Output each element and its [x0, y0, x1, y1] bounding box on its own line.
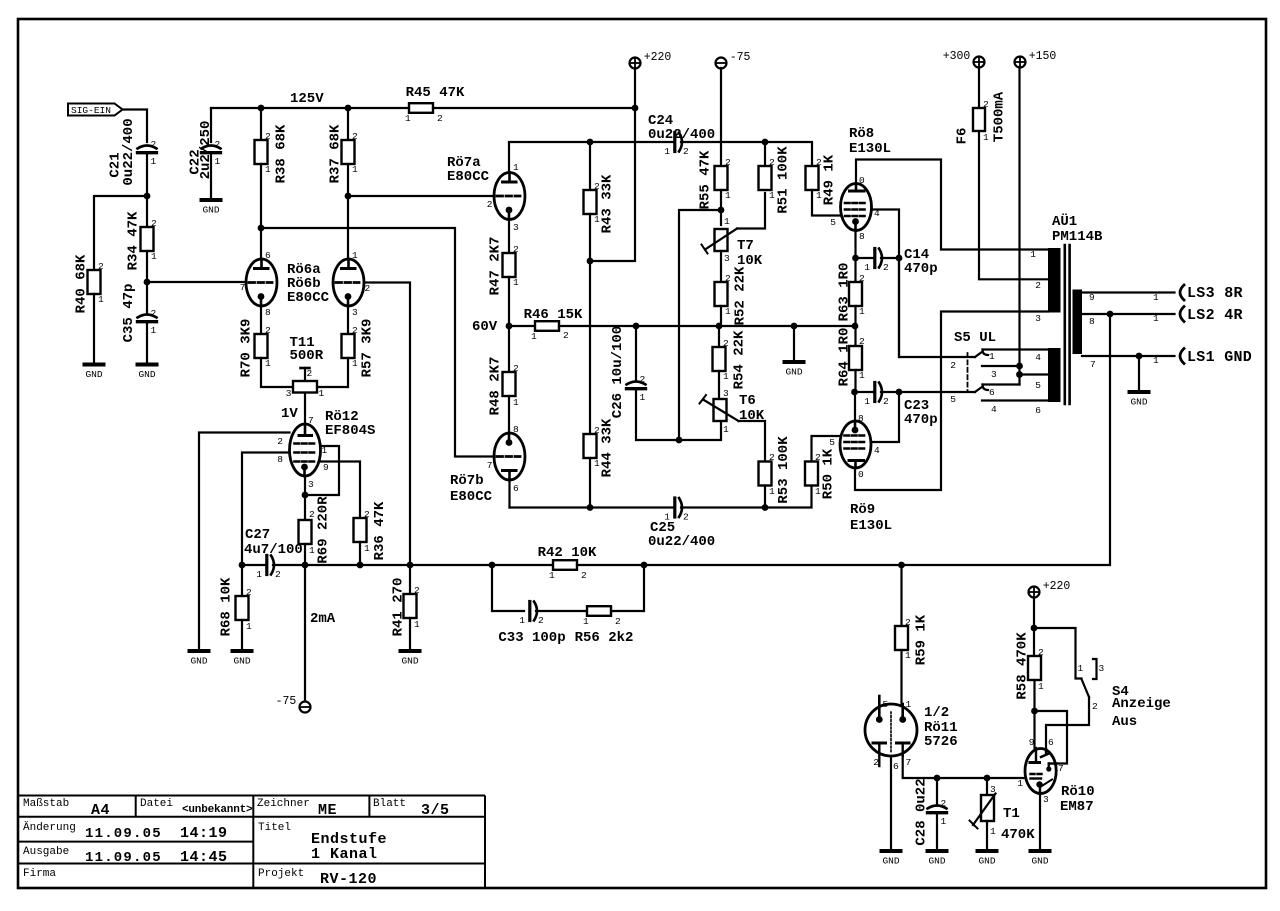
svg-text:2: 2 — [1038, 647, 1044, 658]
svg-text:T500mA: T500mA — [992, 91, 1008, 142]
svg-text:GND: GND — [190, 656, 207, 667]
wire node to C26 line — [679, 210, 721, 440]
svg-text:2: 2 — [725, 157, 731, 168]
svg-text:2: 2 — [277, 436, 283, 447]
svg-text:R63 1R0: R63 1R0 — [837, 263, 853, 322]
svg-text:1: 1 — [859, 370, 865, 381]
svg-text:Rö8: Rö8 — [849, 126, 874, 142]
svg-text:R57 3K9: R57 3K9 — [360, 319, 376, 378]
wire C35 to GND — [146, 323, 148, 363]
svg-text:-75: -75 — [276, 695, 297, 708]
wire Ro12 cathode down — [304, 476, 306, 520]
ground C22 — [202, 198, 221, 202]
svg-text:8: 8 — [265, 307, 271, 318]
svg-text:1: 1 — [769, 190, 775, 201]
wire +220 to node — [1033, 597, 1035, 628]
wire C26 top lead — [635, 326, 637, 380]
svg-text:2: 2 — [487, 199, 493, 210]
wire R45 to +220 node — [433, 107, 635, 109]
resistor R68 10K — [236, 596, 249, 620]
wire Ro9 grid pin5 to R50 — [812, 436, 841, 462]
svg-text:E80CC: E80CC — [287, 290, 330, 306]
wire Ro12 pin1 to cathode node — [305, 446, 339, 495]
svg-text:1: 1 — [769, 486, 775, 497]
svg-text:2: 2 — [683, 146, 689, 157]
svg-text:GND: GND — [1130, 397, 1147, 408]
wire C21 to node — [146, 154, 148, 196]
wire R38 to Ro6a anode — [260, 164, 262, 259]
wire Ro7a cathode to R47 — [508, 220, 510, 254]
svg-text:Rö9: Rö9 — [850, 502, 875, 518]
fuse F6 T500mA — [978, 108, 980, 131]
power +150 — [1015, 57, 1026, 68]
trimmer T6 10K — [714, 399, 727, 421]
svg-text:14:19: 14:19 — [180, 825, 228, 842]
svg-text:AÜ1: AÜ1 — [1052, 213, 1077, 230]
svg-text:C33 100p: C33 100p — [498, 630, 565, 646]
node C23 right — [896, 389, 903, 396]
resistor R37 68K — [347, 108, 349, 140]
svg-text:R70 3K9: R70 3K9 — [239, 319, 255, 378]
wire -75 to R55 — [720, 68, 722, 166]
svg-text:1: 1 — [151, 156, 157, 167]
node C26/T7 node — [676, 437, 683, 444]
ground R68 — [233, 649, 252, 653]
svg-text:9: 9 — [323, 462, 329, 473]
wire R57 to T11 pin 1 — [317, 358, 348, 387]
wire T7 wiper to R51 — [737, 193, 765, 229]
wire secondary pin 7 to LS1 — [1082, 355, 1175, 357]
ground R41 — [401, 649, 420, 653]
wire Ro10 cathode to GND — [1039, 794, 1041, 850]
tube Ro8 E130L pentode — [841, 184, 872, 231]
wire F6 to transformer pin 2 — [979, 131, 1048, 279]
svg-text:Datei: Datei — [140, 798, 173, 810]
svg-text:Rö10: Rö10 — [1061, 784, 1095, 800]
svg-text:2: 2 — [883, 262, 889, 273]
svg-text:1: 1 — [352, 164, 358, 175]
node R34/C35/Ro6a-grid — [144, 279, 151, 286]
svg-text:1: 1 — [859, 306, 865, 317]
node R63/R64 — [852, 323, 859, 330]
svg-text:GND: GND — [928, 856, 945, 867]
svg-text:E130L: E130L — [849, 141, 891, 157]
svg-text:2: 2 — [683, 512, 689, 523]
node R42 left — [489, 562, 496, 569]
resistor R63 1R0 — [849, 282, 862, 306]
svg-text:11.09.05: 11.09.05 — [85, 826, 162, 842]
svg-text:3: 3 — [1035, 313, 1041, 324]
svg-text:5: 5 — [829, 437, 835, 448]
svg-text:1: 1 — [414, 619, 420, 630]
svg-text:1: 1 — [906, 699, 912, 710]
svg-text:1: 1 — [549, 570, 555, 581]
wire R69 to line — [304, 544, 306, 565]
svg-text:1: 1 — [583, 616, 589, 627]
trimmer T11 500R — [304, 368, 306, 424]
svg-text:3: 3 — [724, 253, 730, 264]
svg-text:1: 1 — [989, 351, 995, 362]
node LS GND tap — [1136, 353, 1143, 360]
wire Ro8 cathode down — [854, 231, 856, 283]
wire R41 to GND — [409, 618, 411, 649]
capacitor C26 10u/100 — [627, 382, 646, 385]
svg-text:1: 1 — [664, 146, 670, 157]
resistor R58 470K — [1028, 656, 1041, 680]
svg-text:R40 68K: R40 68K — [74, 254, 90, 313]
svg-text:1 Kanal: 1 Kanal — [311, 846, 378, 863]
svg-text:R42 10K: R42 10K — [538, 545, 597, 561]
svg-text:2: 2 — [414, 585, 420, 596]
wire node to R40 — [94, 196, 147, 270]
svg-text:1: 1 — [723, 424, 729, 435]
svg-text:T1: T1 — [1003, 806, 1020, 822]
capacitor C27 4u7/100 — [265, 556, 268, 575]
svg-text:1: 1 — [352, 358, 358, 369]
svg-text:R45 47K: R45 47K — [406, 85, 465, 101]
svg-text:1: 1 — [990, 826, 996, 837]
node cathode/pin1 — [302, 492, 309, 499]
wire R56 branch right — [611, 565, 644, 611]
svg-text:3: 3 — [308, 479, 314, 490]
svg-text:6: 6 — [1048, 737, 1054, 748]
svg-text:5: 5 — [950, 394, 956, 405]
svg-text:1: 1 — [265, 164, 271, 175]
tube Ro7b E80CC triode flipped — [494, 433, 525, 480]
svg-text:C27: C27 — [245, 527, 270, 543]
svg-text:500R: 500R — [290, 348, 324, 364]
switch S4 contact 1 — [1034, 628, 1082, 679]
wire -75 drop with 2mA — [304, 565, 306, 701]
svg-text:+150: +150 — [1029, 50, 1057, 63]
svg-text:Rö7b: Rö7b — [450, 473, 484, 489]
svg-text:2: 2 — [364, 509, 370, 520]
wire node to C35 — [146, 282, 148, 313]
svg-text:R41 270: R41 270 — [391, 578, 407, 637]
svg-text:2: 2 — [215, 139, 221, 150]
svg-text:1: 1 — [531, 331, 537, 342]
svg-text:T6: T6 — [739, 393, 756, 409]
resistor R51 100K — [764, 142, 766, 166]
wire +150 to transformer pin 5 — [1020, 373, 1049, 375]
wire S4 pole to Ro10 pin 6 — [1046, 697, 1089, 749]
svg-text:3: 3 — [991, 369, 997, 380]
wire secondary pin 9 to LS3 — [1082, 291, 1175, 293]
svg-text:2: 2 — [352, 325, 358, 336]
wire T6 wiper to R53 — [739, 421, 766, 462]
wire Ro7a anode line — [509, 142, 673, 173]
svg-text:-75: -75 — [730, 51, 751, 64]
svg-text:3: 3 — [1099, 663, 1105, 674]
svg-text:Anzeige: Anzeige — [1112, 696, 1171, 712]
title block table — [19, 796, 485, 889]
resistor R47 2K7 — [503, 253, 516, 277]
transformer core lines — [1064, 245, 1067, 404]
svg-text:7: 7 — [1058, 763, 1064, 774]
svg-text:1: 1 — [246, 621, 252, 632]
wire C25 line left — [510, 506, 674, 508]
svg-text:R56 2k2: R56 2k2 — [575, 630, 634, 646]
wire C24 to R49 — [681, 142, 812, 166]
svg-text:GND: GND — [1031, 856, 1048, 867]
node R42 right — [641, 562, 648, 569]
power +220 top — [630, 58, 641, 69]
wire g2 bus C14 to C23 — [898, 258, 900, 357]
capacitor C28 0u22 — [928, 806, 947, 809]
wire S5 pole B arm — [975, 387, 983, 393]
svg-text:3: 3 — [990, 784, 996, 795]
transformer secondary bar — [1073, 290, 1083, 355]
wire bus to R54 — [718, 326, 720, 347]
wire grid node to Ro6a pin 7 — [147, 281, 246, 283]
svg-text:2: 2 — [873, 757, 879, 768]
wire +300 to F6 — [978, 67, 980, 108]
wire +220 to bus — [634, 68, 636, 108]
svg-text:1: 1 — [725, 306, 731, 317]
svg-text:2: 2 — [723, 338, 729, 349]
resistor R69 220R — [299, 520, 312, 544]
switch S4 arm — [1082, 679, 1090, 697]
svg-text:R34 47K: R34 47K — [126, 211, 142, 270]
resistor R43 33K — [584, 190, 597, 214]
node C14 left — [852, 255, 859, 262]
wire C33 to R56 — [536, 610, 587, 612]
wire Ro12 pin8 to C27 node — [242, 453, 290, 566]
svg-text:ME: ME — [318, 802, 337, 819]
node R59 tap — [898, 562, 905, 569]
wire R43 to R44 — [589, 214, 591, 434]
svg-text:2: 2 — [246, 587, 252, 598]
svg-text:GND: GND — [85, 369, 102, 380]
ground LS1 — [1130, 390, 1149, 394]
wire node to R58 — [1033, 628, 1035, 656]
wire R49 to Ro8 grid — [812, 190, 841, 216]
capacitor C33 100p — [528, 602, 531, 621]
tube Ro12 EF804S — [290, 424, 321, 476]
svg-text:8: 8 — [1089, 316, 1095, 327]
resistor R41 270 — [409, 565, 411, 594]
wire anode tap to Ro7b grid — [261, 228, 494, 457]
resistor R57 3K9 — [342, 334, 355, 358]
svg-text:1/2: 1/2 — [924, 705, 949, 721]
node R44 bottom — [587, 504, 594, 511]
resistor R59 1K — [895, 626, 908, 650]
node transformer pin5 / +150 — [1016, 371, 1023, 378]
resistor R40 68K — [88, 270, 101, 294]
svg-text:GND: GND — [785, 367, 802, 378]
wire R48 to Ro7b cathode — [508, 396, 510, 433]
svg-text:1: 1 — [519, 615, 525, 626]
svg-text:1: 1 — [864, 262, 870, 273]
svg-text:EM87: EM87 — [1060, 799, 1094, 815]
wire R58 to grid node — [1033, 680, 1035, 711]
tube Ro6a E80CC triode — [246, 259, 277, 306]
power -75 bottom — [300, 702, 311, 713]
svg-text:1: 1 — [640, 392, 646, 403]
ground T1 — [978, 849, 997, 853]
svg-text:1: 1 — [941, 816, 947, 827]
svg-text:2: 2 — [941, 798, 947, 809]
wire R53 to C25 line — [764, 486, 766, 508]
svg-text:1: 1 — [1017, 778, 1023, 789]
node feedback/R41 — [407, 562, 414, 569]
svg-text:2: 2 — [725, 273, 731, 284]
svg-text:Blatt: Blatt — [373, 798, 406, 810]
svg-text:1: 1 — [405, 113, 411, 124]
svg-text:C28 0u22: C28 0u22 — [914, 778, 930, 845]
svg-text:SIG-EIN: SIG-EIN — [71, 105, 111, 116]
svg-text:1: 1 — [513, 277, 519, 288]
resistor R54 22K — [713, 347, 726, 371]
svg-text:1: 1 — [513, 397, 519, 408]
svg-text:1: 1 — [1153, 292, 1159, 303]
svg-text:R48 2K7: R48 2K7 — [488, 357, 504, 416]
svg-text:1: 1 — [1153, 313, 1159, 324]
resistor R70 3K9 — [255, 334, 268, 358]
svg-text:R49 1K: R49 1K — [822, 154, 838, 205]
svg-text:3: 3 — [286, 388, 292, 399]
svg-text:1: 1 — [352, 250, 358, 261]
wire Ro12 pin9 to R36 — [321, 462, 361, 519]
wire C25 line right — [681, 486, 812, 508]
svg-text:2: 2 — [859, 273, 865, 284]
node feedback tap — [1107, 311, 1114, 318]
svg-text:9: 9 — [1089, 292, 1095, 303]
svg-text:2: 2 — [513, 244, 519, 255]
tube Ro10 EM87 — [1025, 749, 1056, 794]
svg-text:4: 4 — [1035, 352, 1041, 363]
capacitor C22 2u2/250 — [202, 146, 221, 149]
wire T1 to GND — [986, 821, 988, 849]
node C21/R40/R34 — [144, 193, 151, 200]
svg-text:6: 6 — [989, 387, 995, 398]
tube Ro7a E80CC triode — [494, 173, 525, 220]
svg-text:<unbekannt>: <unbekannt> — [182, 804, 253, 816]
svg-text:5: 5 — [1035, 380, 1041, 391]
svg-text:2: 2 — [905, 617, 911, 628]
svg-text:+220: +220 — [1043, 580, 1071, 593]
net flag SIG-EIN — [68, 104, 123, 116]
svg-text:1: 1 — [723, 371, 729, 382]
wire R44 to C25 line — [589, 458, 591, 508]
svg-text:1: 1 — [724, 216, 730, 227]
resistor R44 33K — [584, 434, 597, 458]
node C23 left — [851, 389, 858, 396]
resistor R49 1K — [806, 166, 819, 190]
svg-text:1: 1 — [1038, 681, 1044, 692]
transformer primary winding 1 bar — [1048, 248, 1061, 313]
node Ro6a anode tap — [258, 225, 265, 232]
node R37/Ro7a grid — [345, 193, 352, 200]
svg-text:4: 4 — [874, 445, 880, 456]
capacitor C35 47p — [138, 315, 157, 318]
connector LS1 GND — [1180, 349, 1184, 364]
svg-text:GND: GND — [202, 205, 219, 216]
svg-text:2: 2 — [1035, 280, 1041, 291]
wire node to R42 node — [410, 564, 492, 566]
svg-text:2: 2 — [883, 396, 889, 407]
tube Ro11 5726 dual diode — [865, 704, 917, 756]
wire Ro6a cathode to R70 — [260, 306, 262, 334]
resistor R34 47K — [141, 227, 154, 251]
wire C22 to GND — [210, 154, 212, 198]
svg-text:F6: F6 — [955, 128, 971, 145]
capacitor C23 470p — [873, 383, 876, 402]
node T1 top — [984, 775, 991, 782]
capacitor C24 0u22/400 — [673, 133, 676, 152]
svg-text:Maßstab: Maßstab — [23, 798, 69, 810]
svg-text:1: 1 — [151, 251, 157, 262]
resistor R64 1R0 — [854, 326, 856, 346]
wire GND tap down — [1138, 356, 1140, 390]
ground Ro10 — [1031, 849, 1050, 853]
svg-text:R38 68K: R38 68K — [274, 124, 290, 183]
connector LS3 8R — [1180, 285, 1184, 300]
svg-text:Titel: Titel — [258, 822, 291, 834]
svg-text:GND: GND — [882, 856, 899, 867]
svg-text:7: 7 — [308, 415, 314, 426]
svg-text:R47 2K7: R47 2K7 — [488, 237, 504, 296]
power -75 top — [716, 58, 727, 69]
capacitor C14 470p — [873, 249, 876, 268]
node R55 bottom — [718, 207, 725, 214]
svg-text:R51 100K: R51 100K — [776, 146, 792, 214]
svg-text:R58 470K: R58 470K — [1015, 632, 1031, 700]
wire R63 to bias bus — [854, 306, 856, 326]
wire R70 to T11 pin 3 — [261, 358, 293, 387]
svg-text:1: 1 — [1030, 249, 1036, 260]
svg-text:125V: 125V — [290, 91, 324, 107]
tube Ro6b E80CC triode — [333, 259, 364, 306]
svg-text:C26 10u/100: C26 10u/100 — [610, 326, 626, 418]
svg-text:2: 2 — [513, 363, 519, 374]
svg-text:1: 1 — [309, 545, 315, 556]
node R58 bottom — [1031, 708, 1038, 715]
svg-text:R55 47K: R55 47K — [698, 150, 714, 209]
node C27 left — [239, 562, 246, 569]
svg-text:3: 3 — [352, 307, 358, 318]
wire R40 to GND — [93, 294, 95, 363]
resistor R46 15K — [509, 325, 535, 327]
wire R68 to GND — [241, 620, 243, 649]
svg-text:6: 6 — [1035, 405, 1041, 416]
switch S4 contact 3 — [1093, 659, 1097, 679]
svg-text:1: 1 — [725, 190, 731, 201]
wire Ro11 pin 6 to GND — [890, 756, 892, 849]
resistor R53 100K — [759, 462, 772, 486]
resistor R52 22K — [715, 282, 728, 306]
wire R36 to line — [359, 542, 361, 565]
svg-text:470K: 470K — [1001, 827, 1035, 843]
svg-text:0: 0 — [859, 175, 865, 186]
svg-text:2: 2 — [352, 131, 358, 142]
svg-text:2: 2 — [309, 509, 315, 520]
svg-text:1: 1 — [364, 543, 370, 554]
resistor R38 68K — [260, 108, 262, 140]
svg-text:T7: T7 — [737, 238, 754, 254]
svg-text:R37 68K: R37 68K — [328, 124, 344, 183]
wire feedback line to transformer — [644, 314, 1110, 565]
svg-text:2: 2 — [151, 139, 157, 150]
svg-text:Änderung: Änderung — [23, 821, 76, 834]
svg-text:S5 UL: S5 UL — [954, 330, 996, 346]
svg-text:PM114B: PM114B — [1052, 229, 1103, 245]
wire T1 node down — [986, 778, 988, 795]
resistor R36 47K — [354, 518, 367, 542]
ground Ro12 grid return — [190, 649, 209, 653]
svg-text:0u22/400: 0u22/400 — [121, 118, 137, 185]
node R52/R54 — [716, 323, 723, 330]
